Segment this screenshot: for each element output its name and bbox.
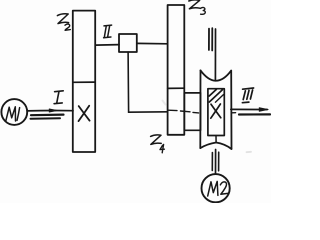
shaft II line (left segment)	[95, 44, 119, 47]
lower shaft hatch	[211, 153, 213, 171]
shaft II line (right segment)	[137, 42, 168, 44]
worm outer right	[230, 71, 232, 149]
connector wire to Z4	[129, 111, 168, 113]
label Z2	[57, 14, 70, 31]
upper vertical shaft	[214, 29, 216, 81]
shaft I	[27, 109, 73, 111]
lower vertical shaft	[215, 150, 217, 175]
motor M1	[1, 99, 27, 125]
shaft III	[231, 108, 267, 110]
gear Z3/Z4 column	[168, 5, 185, 135]
connector wire from box down	[127, 52, 130, 112]
worm bottom arc	[200, 143, 231, 150]
gear Z2 block (left rectangle)	[73, 11, 95, 152]
X in worm box	[211, 104, 221, 118]
shaft I hatch	[31, 113, 64, 116]
shaft III hatch	[239, 113, 270, 115]
hub rectangle	[184, 93, 200, 130]
worm wheel X box	[208, 89, 224, 136]
Z3/Z4 divider	[168, 87, 185, 89]
label M2	[208, 181, 228, 196]
label Z4	[151, 135, 165, 153]
Z2/clutch divider	[73, 81, 95, 83]
worm top arc	[201, 70, 232, 80]
label II	[104, 25, 112, 38]
label M1	[6, 107, 20, 121]
faint scan smudge	[247, 151, 252, 153]
shaft stub through wheel	[215, 136, 217, 143]
dashed axis line	[168, 110, 236, 113]
label III	[242, 88, 253, 103]
worm (globoid) outer left	[199, 70, 201, 148]
shaft III arrow	[259, 108, 268, 112]
hatch in X box	[209, 90, 222, 102]
bearing box on shaft II	[119, 34, 137, 52]
shaft I arrow	[49, 109, 57, 112]
label Z3	[189, 0, 206, 14]
label I	[54, 91, 63, 104]
clutch X (left)	[79, 106, 90, 121]
motor M2	[202, 174, 230, 202]
faint scan smudge B	[163, 101, 166, 105]
upper vertical shaft hatch	[208, 29, 210, 50]
